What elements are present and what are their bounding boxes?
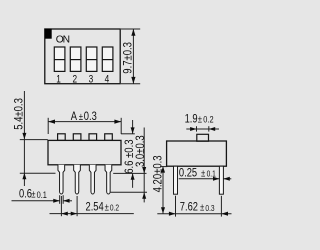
reference line pin tip (right)	[111, 191, 148, 193]
svg-text:0.6: 0.6	[19, 188, 32, 201]
actuator bump 3	[89, 134, 97, 141]
svg-text:±: ±	[200, 202, 204, 213]
front view body	[48, 140, 121, 164]
reference line bump top (right)	[121, 133, 135, 135]
actuator bump 2	[73, 134, 81, 141]
svg-text:±: ±	[79, 111, 83, 122]
actuator bump 1	[58, 134, 66, 141]
dimension 6.6±0.3 (height above seating)	[132, 120, 134, 188]
svg-text:ON: ON	[56, 34, 70, 45]
pin 4 (front)	[105, 165, 112, 194]
pin 3 (front)	[89, 165, 96, 194]
side view actuator tab	[197, 134, 209, 141]
svg-text:7.62: 7.62	[180, 201, 198, 214]
svg-text:2.54: 2.54	[86, 200, 104, 213]
orientation marker square	[45, 29, 52, 39]
side pin right	[219, 166, 223, 194]
dimension 9.7±0.3 (top view height)	[121, 29, 140, 84]
top view body	[45, 29, 120, 84]
svg-text:3: 3	[89, 74, 94, 86]
switch slot 1	[54, 47, 65, 71]
position numbers 1 2 3 4	[56, 74, 109, 86]
side pin left	[174, 166, 178, 194]
dimension 3.0±0.3 (standoff)	[143, 128, 145, 203]
switch slot 4	[102, 47, 113, 71]
svg-text:±: ±	[31, 189, 35, 200]
pin 1 (front)	[58, 165, 65, 194]
svg-text:±: ±	[201, 167, 205, 178]
svg-text:0.25: 0.25	[179, 166, 197, 179]
pin 2 (front)	[74, 165, 81, 194]
svg-text:9.7±0.3: 9.7±0.3	[122, 42, 135, 74]
svg-text:0.2: 0.2	[110, 203, 119, 213]
svg-text:0.3: 0.3	[205, 203, 214, 213]
svg-text:1.9: 1.9	[185, 112, 198, 125]
svg-text:1: 1	[56, 74, 61, 86]
side view body	[167, 141, 227, 166]
svg-text:2: 2	[72, 74, 77, 86]
switch slot 3	[86, 47, 97, 71]
reference line seating plane (right)	[113, 172, 146, 174]
svg-text:3.0±0.3: 3.0±0.3	[134, 135, 147, 167]
switch slot 2	[70, 47, 81, 71]
svg-text:0.1: 0.1	[37, 189, 48, 200]
actuator bump 4	[105, 134, 113, 141]
svg-text:0.2: 0.2	[203, 114, 214, 125]
svg-text:±: ±	[198, 113, 202, 124]
svg-text:4: 4	[105, 74, 110, 86]
svg-text:±: ±	[105, 201, 109, 212]
